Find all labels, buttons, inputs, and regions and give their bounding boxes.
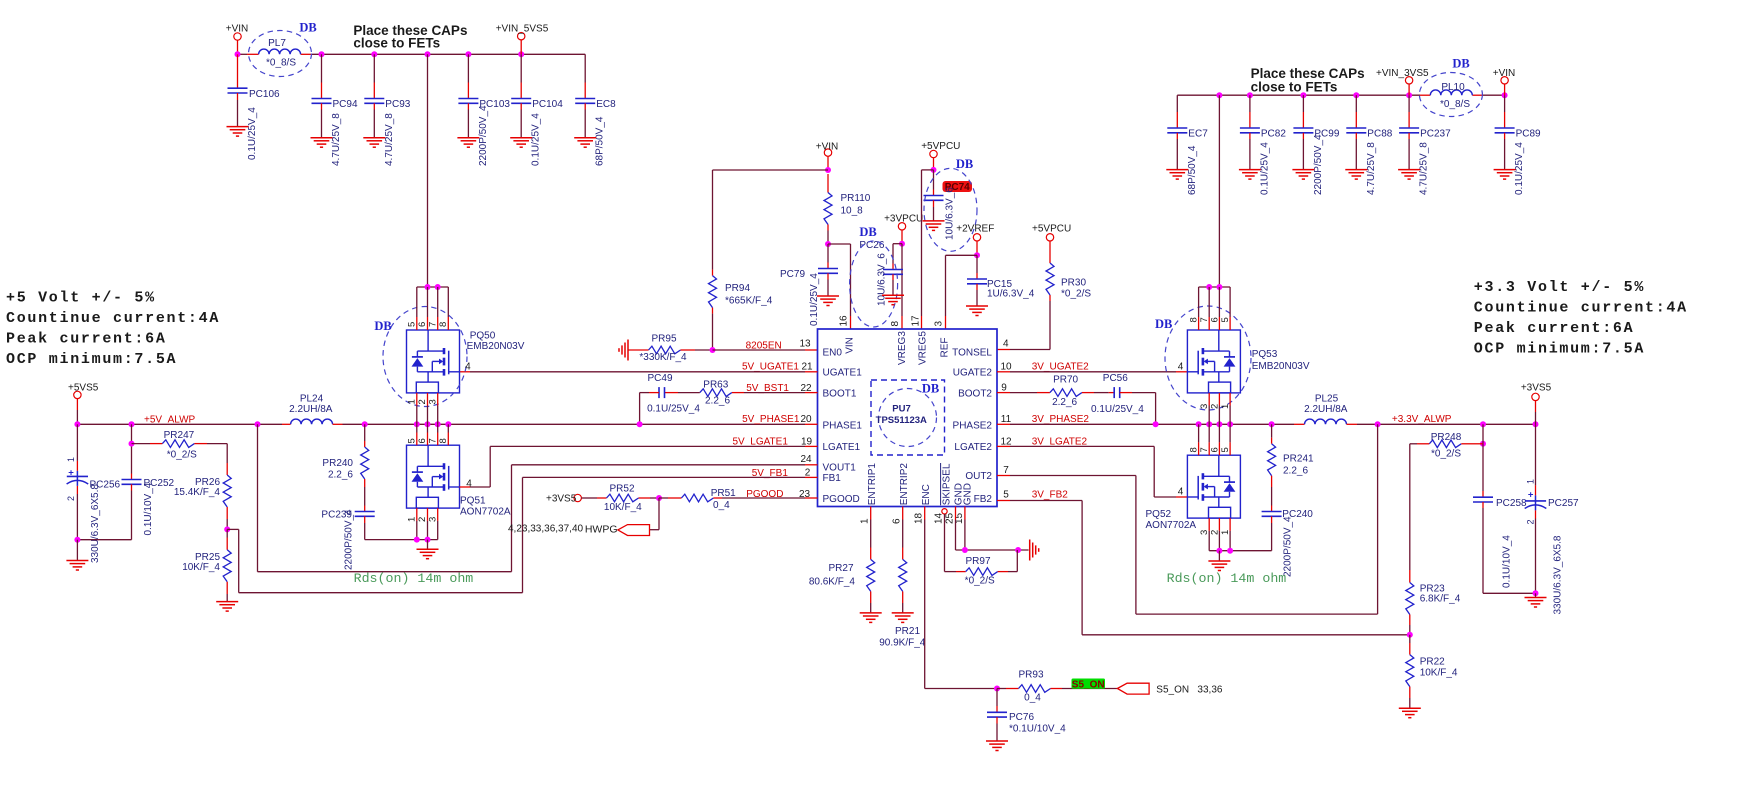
inductor PL25: [1304, 394, 1357, 425]
svg-text:4,23,33,36,37,40: 4,23,33,36,37,40: [508, 524, 584, 535]
svg-text:Rds(on) 14m ohm: Rds(on) 14m ohm: [1167, 571, 1287, 586]
junction 8205EN: [710, 347, 716, 353]
wire +VIN to PR94: [713, 170, 829, 270]
svg-text:VOUT1: VOUT1: [823, 463, 857, 474]
net label 5V_UGATE1: [742, 361, 813, 372]
junction +2VREF: [974, 252, 980, 258]
svg-text:4.7U/25V_8: 4.7U/25V_8: [1419, 142, 1430, 195]
svg-text:*0_2/S: *0_2/S: [1431, 449, 1461, 460]
ground PQ51: [417, 549, 439, 559]
svg-text:PC89: PC89: [1516, 129, 1541, 140]
svg-text:4: 4: [466, 479, 472, 490]
capacitor PC239: [321, 509, 374, 570]
svg-text:0.1U/10V_4: 0.1U/10V_4: [143, 482, 154, 535]
junction PR110/PC79: [825, 241, 831, 247]
svg-text:BOOT2: BOOT2: [958, 389, 992, 400]
wire 3V_LGATE2: [997, 446, 1187, 497]
wire VREG3 pin8: [901, 244, 903, 329]
svg-text:PL10: PL10: [1441, 82, 1465, 93]
svg-text:3V_FB2: 3V_FB2: [1032, 489, 1069, 500]
svg-text:PR52: PR52: [609, 484, 634, 495]
junction PR23/PR22: [1407, 632, 1413, 638]
svg-text:4: 4: [1178, 362, 1184, 373]
svg-text:10_8: 10_8: [841, 206, 864, 217]
svg-text:LGATE2: LGATE2: [954, 442, 992, 453]
svg-text:3: 3: [427, 399, 438, 404]
capacitor PC99: [1292, 95, 1339, 195]
capacitor PC56: [1091, 373, 1156, 424]
ground PC26: [882, 295, 904, 305]
resistor PR30: [1046, 263, 1091, 350]
junction PGOOD: [656, 495, 662, 501]
note +3.3V spec: [1474, 279, 1688, 358]
svg-text:close to FETs: close to FETs: [353, 36, 440, 51]
svg-text:68P/50V_4: 68P/50V_4: [1187, 145, 1198, 195]
svg-text:PR248: PR248: [1431, 432, 1462, 443]
svg-text:2.2_6: 2.2_6: [1283, 466, 1308, 477]
capacitor PC76: [987, 689, 1066, 742]
svg-text:14: 14: [933, 512, 944, 524]
resistor PR27: [809, 507, 875, 613]
svg-text:+5VS5: +5VS5: [68, 382, 99, 393]
svg-text:0_4: 0_4: [1024, 692, 1041, 703]
svg-text:PR94: PR94: [725, 283, 750, 294]
svg-text:4: 4: [1178, 487, 1184, 498]
svg-text:PQ51: PQ51: [460, 495, 486, 506]
wire +5V_ALWP rail: [77, 423, 290, 425]
svg-text:PQ52: PQ52: [1146, 509, 1172, 520]
wire PQ50 pin buses: [417, 284, 449, 424]
svg-text:8205EN: 8205EN: [746, 341, 782, 352]
ground sideways GND bus: [1030, 540, 1039, 561]
capacitor EC8: [574, 54, 616, 166]
svg-text:BOOT1: BOOT1: [823, 389, 857, 400]
net label HWPG: [508, 523, 618, 535]
svg-text:close to FETs: close to FETs: [1251, 79, 1338, 94]
svg-text:+3VS5: +3VS5: [546, 493, 577, 504]
svg-text:5V_PHASE1: 5V_PHASE1: [742, 414, 800, 425]
svg-text:*0_8/S: *0_8/S: [1440, 99, 1470, 110]
svg-text:AON7702A: AON7702A: [1146, 520, 1197, 531]
capacitor PC104: [510, 54, 563, 166]
svg-text:+VIN_3VS5: +VIN_3VS5: [1376, 68, 1429, 79]
svg-text:+VIN: +VIN: [816, 141, 839, 152]
svg-text:7: 7: [427, 438, 438, 443]
resistor PR247: [132, 430, 228, 463]
svg-text:1: 1: [66, 457, 76, 462]
capacitor PC252: [122, 424, 175, 539]
power +VIN (top left): [226, 24, 249, 55]
svg-text:*0_2/S: *0_2/S: [1061, 289, 1091, 300]
power +3VS5 (pgood): [546, 493, 581, 504]
svg-text:PHASE1: PHASE1: [823, 421, 863, 432]
ground PC106: [227, 127, 249, 137]
resistor PR97: [965, 550, 1018, 586]
capacitor PC240: [1262, 509, 1314, 577]
svg-text:4.7U/25V_8: 4.7U/25V_8: [384, 113, 395, 166]
svg-text:PC258: PC258: [1496, 498, 1527, 509]
svg-text:Countinue current:4A: Countinue current:4A: [6, 310, 220, 327]
svg-text:PR95: PR95: [651, 333, 676, 344]
svg-text:UGATE2: UGATE2: [953, 368, 993, 379]
resistor PR93: [997, 670, 1117, 704]
svg-text:2.2UH/8A: 2.2UH/8A: [1304, 404, 1348, 415]
junction 5V_PHASE1 dots: [74, 421, 642, 427]
ground PQ52: [1208, 561, 1230, 571]
svg-text:11: 11: [1001, 414, 1012, 425]
svg-text:PC104: PC104: [532, 99, 563, 110]
power +VIN_5VS5: [496, 24, 549, 55]
svg-text:FB1: FB1: [823, 473, 842, 484]
svg-text:3: 3: [934, 321, 945, 327]
svg-text:1: 1: [407, 399, 418, 404]
svg-text:ENC: ENC: [921, 484, 932, 505]
wire PQ52 pin buses: [1199, 424, 1272, 561]
svg-text:*0_2/S: *0_2/S: [167, 450, 197, 461]
svg-text:4: 4: [465, 361, 471, 372]
resistor PR241: [1268, 424, 1314, 511]
svg-text:PL7: PL7: [268, 38, 286, 49]
capacitor PC89: [1494, 95, 1541, 195]
svg-text:2200P/50V_4: 2200P/50V_4: [1313, 134, 1324, 195]
svg-text:PR70: PR70: [1053, 374, 1078, 385]
capacitor PC256: [66, 424, 120, 563]
resistor PR26: [174, 463, 231, 529]
net label 5V_LGATE1: [732, 437, 812, 448]
svg-text:EMB20N03V: EMB20N03V: [1252, 361, 1310, 372]
capacitor PC88: [1345, 95, 1392, 195]
svg-text:+3.3 Volt +/- 5%: +3.3 Volt +/- 5%: [1474, 279, 1645, 296]
capacitor PC79: [780, 244, 838, 326]
capacitor PC257: [1525, 424, 1579, 614]
svg-text:S5_ON 33,36: S5_ON 33,36: [1156, 684, 1223, 695]
wire HWPG: [649, 498, 659, 530]
wire VOUT1 sense: [258, 424, 818, 571]
note Rds left: [354, 571, 474, 586]
wire net 8205EN: [713, 349, 818, 351]
capacitor PC258: [1473, 444, 1527, 594]
svg-text:PL24: PL24: [300, 394, 324, 405]
wire GND pins bus: [956, 507, 1029, 554]
svg-text:DB: DB: [859, 225, 876, 239]
svg-text:8: 8: [438, 438, 449, 443]
wire VIN pin16: [828, 244, 851, 329]
svg-text:2: 2: [1526, 519, 1536, 524]
svg-text:68P/50V_4: 68P/50V_4: [595, 116, 606, 166]
resistor PR95: [628, 333, 713, 363]
capacitor PC93: [363, 54, 410, 166]
svg-text:PR21: PR21: [895, 626, 920, 637]
svg-text:+VIN: +VIN: [226, 24, 249, 35]
ground PR21: [892, 613, 914, 623]
junction +VIN center: [825, 167, 831, 173]
svg-text:+3.3V_ALWP: +3.3V_ALWP: [1392, 414, 1452, 425]
net label 3V_PHASE2: [1001, 414, 1090, 425]
junction top-right bus dots: [1216, 92, 1507, 98]
svg-text:0.1U/25V_4: 0.1U/25V_4: [247, 107, 258, 160]
wire PQ53 pin buses: [1199, 284, 1231, 424]
svg-text:PR30: PR30: [1061, 278, 1086, 289]
junction +5VPCU: [931, 167, 937, 173]
capacitor PC74: [924, 157, 978, 251]
svg-text:2.2_6: 2.2_6: [1052, 397, 1077, 408]
wire 3V_FB2 sense: [997, 501, 1410, 635]
svg-text:+5 Volt +/- 5%: +5 Volt +/- 5%: [6, 289, 156, 306]
svg-text:1: 1: [859, 518, 870, 524]
junction FB divider: [224, 526, 230, 532]
wire SKIPSEL pin14: [945, 514, 966, 572]
svg-text:6: 6: [891, 518, 902, 524]
svg-text:3V_PHASE2: 3V_PHASE2: [1032, 414, 1090, 425]
svg-text:PGOOD: PGOOD: [746, 489, 783, 500]
svg-text:FB2: FB2: [974, 494, 993, 505]
junction top bus dots: [235, 51, 525, 57]
svg-text:DB: DB: [956, 157, 973, 171]
junction 3V_PHASE2 dots: [1153, 421, 1275, 427]
power +5VPCU (right): [1032, 223, 1071, 263]
power +VIN (center): [816, 141, 839, 170]
svg-text:PR27: PR27: [828, 563, 853, 574]
wire +VIN_3VS5 top bus: [1177, 94, 1504, 96]
ground sideways 8205EN: [619, 340, 628, 361]
note place caps right: [1251, 66, 1365, 95]
note Rds right: [1167, 571, 1287, 586]
svg-text:0.1U/25V_4: 0.1U/25V_4: [1259, 142, 1270, 195]
svg-text:15.4K/F_4: 15.4K/F_4: [174, 487, 221, 498]
resistor PR52: [581, 484, 659, 513]
svg-text:8: 8: [438, 322, 449, 327]
svg-text:OUT2: OUT2: [965, 471, 992, 482]
svg-text:Rds(on) 14m ohm: Rds(on) 14m ohm: [354, 571, 474, 586]
svg-text:UGATE1: UGATE1: [823, 368, 863, 379]
net label BOOT2 pin9: [1001, 383, 1007, 394]
svg-text:2: 2: [66, 496, 76, 501]
svg-text:ENTRIP1: ENTRIP1: [867, 463, 878, 506]
svg-text:OCP minimum:7.5A: OCP minimum:7.5A: [6, 351, 177, 368]
svg-text:330U/6.3V_6X5.8: 330U/6.3V_6X5.8: [90, 484, 101, 563]
wire PC258/PC257 gnd bus: [1483, 590, 1539, 597]
power +3VPCU: [884, 213, 923, 243]
transistor Q PQ53: [1155, 306, 1310, 410]
svg-text:S5_ON: S5_ON: [1072, 679, 1105, 690]
wire OUT2 sense: [997, 424, 1378, 614]
svg-text:DB: DB: [1452, 57, 1469, 71]
svg-text:0.1U/25V_4: 0.1U/25V_4: [1514, 142, 1525, 195]
capacitor PC49: [640, 373, 701, 424]
svg-text:HWPG: HWPG: [585, 523, 618, 535]
svg-text:Peak current:6A: Peak current:6A: [1474, 320, 1635, 337]
svg-text:EC8: EC8: [596, 99, 616, 110]
power +2VREF: [956, 223, 994, 255]
svg-text:OCP minimum:7.5A: OCP minimum:7.5A: [1474, 341, 1645, 358]
svg-text:10K/F_4: 10K/F_4: [604, 502, 642, 513]
svg-text:2.2_6: 2.2_6: [328, 469, 353, 480]
svg-text:PC56: PC56: [1103, 373, 1128, 384]
svg-text:PL25: PL25: [1315, 394, 1339, 405]
svg-text:2.2_6: 2.2_6: [705, 395, 730, 406]
flag HWPG: [618, 525, 650, 536]
wire +VIN top bus: [238, 53, 586, 55]
resistor PR25: [182, 529, 231, 601]
svg-text:16: 16: [839, 315, 850, 327]
resistor PR248: [1410, 424, 1483, 570]
svg-text:3V_UGATE2: 3V_UGATE2: [1032, 361, 1089, 372]
svg-text:10K/F_4: 10K/F_4: [182, 562, 220, 573]
ground PC76: [986, 741, 1008, 751]
ground PC79: [817, 296, 839, 306]
wire 5V_BST1: [732, 392, 818, 394]
svg-text:PR63: PR63: [703, 380, 728, 391]
wire TONSEL pin4: [997, 338, 1050, 349]
wire 5V_FB1 sense: [227, 477, 817, 592]
svg-text:10U/6.3V_6: 10U/6.3V_6: [945, 187, 956, 240]
net label 3V_FB2: [1003, 489, 1068, 500]
ground PR25: [216, 602, 238, 612]
svg-text:*0_2/S: *0_2/S: [965, 575, 995, 586]
svg-text:*665K/F_4: *665K/F_4: [725, 295, 773, 306]
svg-text:24: 24: [800, 454, 812, 465]
wire 5V_UGATE1: [460, 371, 818, 373]
pin 14 inversion bubble: [942, 509, 947, 514]
svg-text:7: 7: [1003, 465, 1009, 476]
IC top/bottom pin numbers: [839, 315, 966, 524]
svg-text:+VIN: +VIN: [1493, 68, 1516, 79]
svg-text:Peak current:6A: Peak current:6A: [6, 330, 167, 347]
net label PGOOD: [746, 489, 810, 500]
svg-text:0.1U/10V_4: 0.1U/10V_4: [1502, 535, 1513, 588]
ground PC74: [923, 221, 945, 231]
svg-text:6.8K/F_4: 6.8K/F_4: [1420, 594, 1461, 605]
svg-text:PQ50: PQ50: [470, 331, 496, 342]
svg-text:+2VREF: +2VREF: [956, 223, 994, 234]
svg-text:PR93: PR93: [1018, 670, 1043, 681]
svg-text:PR110: PR110: [841, 193, 871, 204]
resistor PR23: [1406, 570, 1461, 635]
svg-text:+5VPCU: +5VPCU: [1032, 223, 1071, 234]
svg-text:4: 4: [1003, 338, 1009, 349]
inductor PL24: [289, 394, 342, 425]
capacitor EC7: [1166, 95, 1208, 195]
svg-text:5: 5: [407, 322, 418, 327]
net label 5V_BST1: [746, 383, 812, 394]
junction PR248: [1480, 441, 1486, 447]
svg-text:PHASE2: PHASE2: [953, 421, 993, 432]
capacitor PC94: [311, 54, 358, 166]
svg-text:PQ53: PQ53: [1252, 349, 1278, 360]
transistor Q PQ52: [1146, 447, 1241, 535]
net label 3V_UGATE2: [1000, 361, 1089, 372]
svg-text:23: 23: [799, 489, 811, 500]
inductor PL7: [249, 21, 317, 77]
resistor PR22: [1406, 635, 1458, 708]
svg-text:PR241: PR241: [1283, 454, 1314, 465]
svg-text:5: 5: [407, 438, 418, 443]
IC pin names: [823, 331, 993, 506]
power +VIN_3VS5: [1376, 68, 1429, 95]
svg-text:90.9K/F_4: 90.9K/F_4: [879, 637, 926, 648]
svg-text:330U/6.3V_6X5.8: 330U/6.3V_6X5.8: [1553, 535, 1564, 614]
svg-text:PC79: PC79: [780, 269, 805, 280]
svg-text:PR51: PR51: [711, 488, 736, 499]
svg-text:9: 9: [1001, 383, 1007, 394]
svg-text:*330K/F_4: *330K/F_4: [639, 352, 687, 363]
svg-text:1: 1: [1526, 479, 1536, 484]
svg-text:PR22: PR22: [1420, 657, 1445, 668]
svg-text:PC237: PC237: [1420, 129, 1451, 140]
svg-text:PC49: PC49: [647, 373, 672, 384]
svg-text:VREG3: VREG3: [897, 331, 908, 365]
capacitor PC237: [1398, 95, 1451, 195]
svg-text:0.1U/25V_4: 0.1U/25V_4: [531, 113, 542, 166]
net label 5V_PHASE1: [742, 414, 812, 425]
transistor Q PQ50: [374, 307, 524, 407]
note place caps left: [353, 23, 467, 51]
resistor PR21: [879, 507, 926, 649]
svg-text:DB: DB: [299, 21, 316, 35]
svg-text:PC106: PC106: [249, 89, 280, 100]
svg-text:PGOOD: PGOOD: [823, 494, 860, 505]
svg-text:EN0: EN0: [823, 348, 843, 359]
wire feed to PQ50: [427, 54, 429, 287]
svg-text:3: 3: [427, 517, 438, 522]
wire 5V_PHASE1: [343, 423, 818, 425]
svg-text:SKIPSEL: SKIPSEL: [942, 463, 953, 505]
svg-text:DB: DB: [1155, 317, 1172, 331]
svg-text:PU7: PU7: [892, 404, 910, 415]
svg-text:2200P/50V_4: 2200P/50V_4: [478, 105, 489, 166]
power +VIN (top right): [1493, 68, 1516, 95]
resistor PR110: [824, 174, 871, 244]
svg-text:0.1U/25V_4: 0.1U/25V_4: [647, 404, 700, 415]
wire feed to PQ53: [1218, 95, 1220, 287]
ground PR27: [860, 613, 882, 623]
svg-text:PC82: PC82: [1261, 129, 1286, 140]
power +5VPCU (center): [921, 141, 960, 170]
svg-text:2.2UH/8A: 2.2UH/8A: [289, 404, 333, 415]
svg-text:18: 18: [913, 512, 924, 524]
svg-text:*0.1U/10V_4: *0.1U/10V_4: [1009, 723, 1066, 734]
svg-text:EC7: EC7: [1188, 129, 1208, 140]
svg-text:GND: GND: [963, 483, 974, 505]
svg-text:10K/F_4: 10K/F_4: [1420, 667, 1458, 678]
svg-text:2200P/50V_4: 2200P/50V_4: [1283, 516, 1294, 577]
svg-text:Countinue current:4A: Countinue current:4A: [1474, 299, 1688, 316]
capacitor PC103: [457, 54, 510, 166]
net label +5V_ALWP: [144, 414, 196, 425]
svg-text:0.1U/25V_4: 0.1U/25V_4: [1091, 404, 1144, 415]
svg-text:8: 8: [890, 321, 901, 327]
capacitor PC26: [850, 225, 903, 327]
svg-text:80.6K/F_4: 80.6K/F_4: [809, 576, 856, 587]
note +5V spec: [6, 289, 220, 368]
svg-text:5: 5: [1003, 489, 1009, 500]
svg-text:10: 10: [1000, 361, 1012, 372]
svg-text:PR97: PR97: [965, 556, 990, 567]
svg-text:13: 13: [799, 338, 811, 349]
svg-text:DB: DB: [922, 382, 939, 396]
svg-text:EMB20N03V: EMB20N03V: [467, 341, 525, 352]
net label 5V_FB1: [752, 468, 811, 480]
ground PC15: [966, 306, 988, 316]
resistor PR94: [709, 270, 773, 350]
svg-text:AON7702A: AON7702A: [460, 507, 511, 518]
junction +3VPCU: [899, 241, 905, 247]
flag S5_ON: [1117, 683, 1149, 694]
resistor PR70: [997, 374, 1109, 408]
wire 5V_LGATE1: [460, 446, 818, 487]
ground PR22: [1399, 708, 1421, 718]
svg-text:VIN: VIN: [845, 337, 856, 354]
